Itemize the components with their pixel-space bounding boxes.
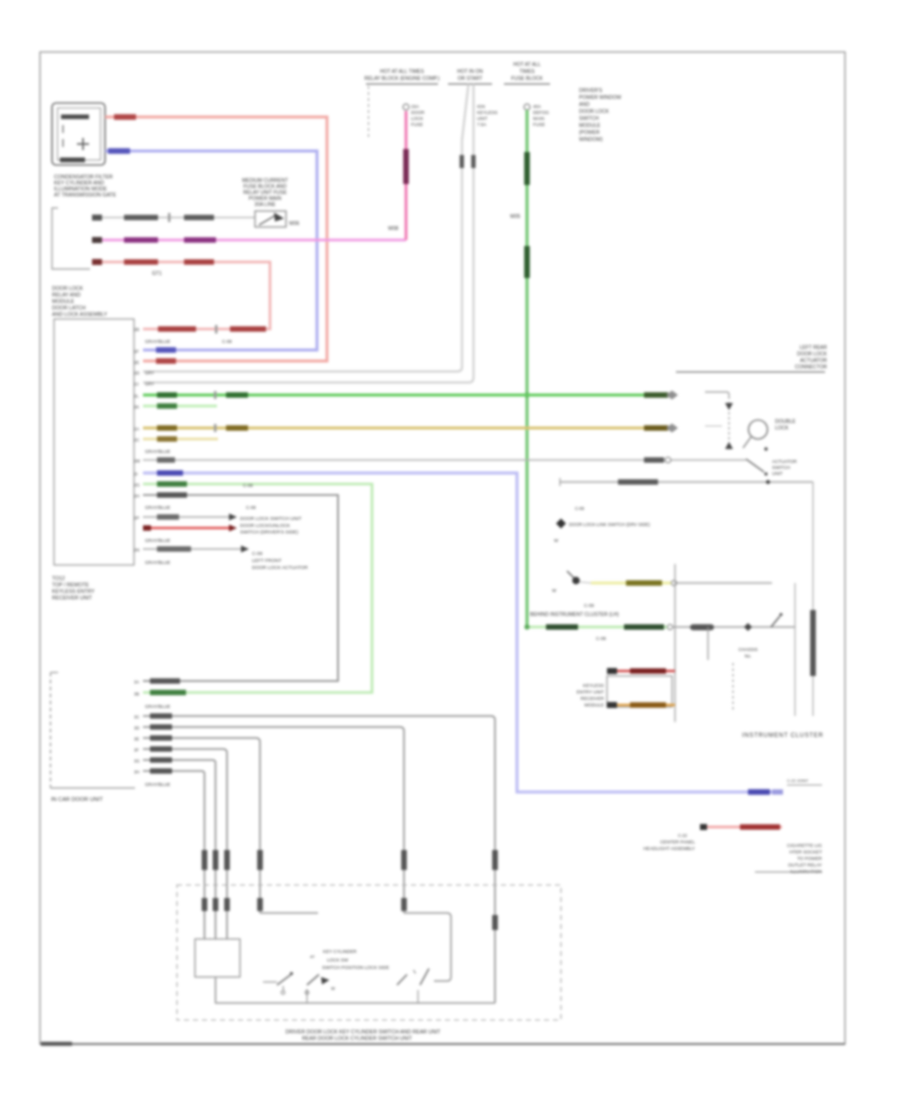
svg-text:2N: 2N bbox=[134, 548, 139, 553]
wire bottom bus bbox=[215, 1002, 495, 1004]
svg-text:C-08: C-08 bbox=[596, 636, 606, 641]
wire down W18 bbox=[134, 713, 498, 1003]
svg-text:DRIVER'S: DRIVER'S bbox=[579, 88, 603, 94]
svg-text:LEFT REAR: LEFT REAR bbox=[800, 345, 828, 351]
wire red short 827 bbox=[643, 824, 782, 851]
wire stub arrow W17 bbox=[134, 546, 308, 572]
svg-text:2H: 2H bbox=[134, 494, 139, 499]
connector box B2 bbox=[195, 939, 240, 977]
wire cluster vertical V1 bbox=[812, 482, 814, 716]
svg-text:40A: 40A bbox=[533, 104, 541, 109]
node row 693 green loop end bbox=[134, 690, 186, 697]
svg-text:GRAY/BLUE: GRAY/BLUE bbox=[145, 505, 170, 510]
svg-text:REAR DOOR LOCK CYLINDER SWITCH: REAR DOOR LOCK CYLINDER SWITCH UNIT bbox=[302, 1036, 413, 1042]
svg-text:2A: 2A bbox=[134, 427, 139, 432]
svg-text:DOOR LOCK SWITCH UNIT: DOOR LOCK SWITCH UNIT bbox=[240, 516, 302, 522]
svg-text:HEADLIGHT ASSEMBLY: HEADLIGHT ASSEMBLY bbox=[643, 846, 695, 851]
svg-text:FUSE BLOCK: FUSE BLOCK bbox=[511, 76, 543, 82]
battery / key cylinder box B1 bbox=[52, 103, 105, 165]
svg-text:CONNECTOR: CONNECTOR bbox=[795, 365, 828, 371]
wire gray row 627 cont bbox=[673, 613, 795, 631]
svg-text:2B: 2B bbox=[134, 327, 139, 332]
svg-text:3H: 3H bbox=[134, 770, 139, 775]
svg-text:DOUBLE: DOUBLE bbox=[775, 419, 796, 425]
wire stub 708 bbox=[707, 627, 709, 660]
header H1 hot at all times bbox=[364, 69, 440, 140]
label vertical instrument cluster bbox=[810, 610, 816, 676]
wire blue long W12 bbox=[134, 470, 783, 795]
node segment 913 bbox=[260, 912, 318, 914]
wire yellow row 583 bbox=[580, 580, 772, 585]
svg-text:FUSE: FUSE bbox=[411, 122, 423, 127]
label switch center bbox=[310, 949, 389, 970]
svg-text:GRY: GRY bbox=[145, 371, 154, 376]
wire green long W7 bbox=[134, 391, 678, 400]
svg-text:INSTRUMENT CLUSTER: INSTRUMENT CLUSTER bbox=[742, 733, 824, 739]
svg-text:TO POWER: TO POWER bbox=[797, 856, 823, 861]
svg-text:C-22 JOINT: C-22 JOINT bbox=[787, 778, 809, 783]
wire green stub W8 bbox=[134, 403, 217, 409]
svg-text:AT: AT bbox=[310, 954, 315, 959]
svg-text:RECEIVER UNIT: RECEIVER UNIT bbox=[52, 596, 93, 602]
svg-text:DOOR LOCK/UNLOCK: DOOR LOCK/UNLOCK bbox=[240, 523, 291, 529]
svg-text:CHASSIS: CHASSIS bbox=[738, 647, 757, 652]
link dashed 733 bbox=[732, 663, 734, 710]
svg-text:GRAY/BLUE: GRAY/BLUE bbox=[145, 782, 170, 787]
svg-text:W06: W06 bbox=[289, 221, 300, 227]
wire white W5 bbox=[143, 84, 476, 383]
switch blade actuator bbox=[746, 459, 798, 476]
wire down W21 bbox=[134, 746, 230, 939]
svg-text:7.5A: 7.5A bbox=[477, 122, 486, 127]
svg-text:KEYLESS: KEYLESS bbox=[583, 683, 604, 688]
svg-text:2F: 2F bbox=[134, 349, 139, 354]
svg-text:15A: 15A bbox=[411, 104, 419, 109]
node row A filter wire bbox=[92, 213, 255, 222]
svg-text:LEFT FRONT: LEFT FRONT bbox=[252, 558, 282, 564]
switch SW3 blade bbox=[397, 970, 416, 985]
connector bracket C2 bbox=[51, 673, 136, 804]
filter component F1 bbox=[255, 211, 300, 227]
svg-text:DOOR LOCK ACTUATOR: DOOR LOCK ACTUATOR bbox=[252, 565, 308, 571]
svg-text:GRAY/BLUE: GRAY/BLUE bbox=[145, 560, 170, 565]
svg-text:SWITCH POSITION LOCK SIDE: SWITCH POSITION LOCK SIDE bbox=[322, 965, 389, 970]
label chassis no bbox=[738, 647, 757, 659]
svg-text:DOOR LOCK-LINK SWITCH (DRV SID: DOOR LOCK-LINK SWITCH (DRV SIDE) bbox=[569, 522, 650, 527]
wire red loop W1 bbox=[105, 114, 327, 364]
svg-text:KEYLESS: KEYLESS bbox=[477, 110, 498, 115]
wire orange row 705 bbox=[607, 702, 675, 708]
svg-text:3F: 3F bbox=[134, 748, 139, 753]
svg-text:2J: 2J bbox=[134, 382, 138, 387]
wire vertical 675 bbox=[674, 564, 676, 722]
label above filter bbox=[242, 178, 288, 208]
svg-text:AND: AND bbox=[579, 102, 590, 108]
svg-text:WINDOW): WINDOW) bbox=[579, 137, 603, 143]
svg-text:2E: 2E bbox=[134, 360, 139, 365]
switch housing outline bbox=[404, 913, 451, 981]
wire light green loop W13 bbox=[134, 481, 372, 692]
svg-text:DOOR LATCH: DOOR LATCH bbox=[52, 306, 86, 312]
wire down W22 bbox=[134, 757, 218, 939]
svg-text:2L: 2L bbox=[134, 394, 139, 399]
svg-text:TOP / REMOTE: TOP / REMOTE bbox=[52, 583, 90, 589]
svg-text:2M: 2M bbox=[134, 459, 140, 464]
node diamond 523 bbox=[554, 506, 650, 543]
label footer bbox=[286, 1030, 442, 1043]
wire down W23 bbox=[134, 768, 207, 939]
motor M1 bbox=[743, 419, 796, 451]
svg-text:AT TRANSMISSION GATE: AT TRANSMISSION GATE bbox=[54, 193, 117, 199]
svg-text:RELAY AND: RELAY AND bbox=[52, 293, 81, 299]
wire down W20 bbox=[134, 735, 263, 913]
svg-text:30A LINE: 30A LINE bbox=[254, 202, 276, 208]
label note above blue end bbox=[787, 778, 822, 785]
svg-text:MODULE: MODULE bbox=[52, 299, 75, 305]
svg-text:CIGARETTE LIG: CIGARETTE LIG bbox=[787, 843, 822, 848]
svg-text:2K: 2K bbox=[134, 405, 139, 410]
label left rear actuator bbox=[795, 345, 828, 371]
svg-text:AND LOCK ASSEMBLY: AND LOCK ASSEMBLY bbox=[52, 312, 108, 318]
svg-text:W: W bbox=[554, 538, 559, 543]
label C-09 cluster bbox=[530, 603, 619, 641]
svg-text:MODULE: MODULE bbox=[579, 123, 601, 129]
svg-text:HOT IN ON: HOT IN ON bbox=[457, 69, 483, 75]
svg-text:W08: W08 bbox=[388, 226, 399, 232]
wire gray row 482 bbox=[560, 478, 813, 486]
wire white W4 bbox=[143, 84, 469, 372]
svg-text:GT1: GT1 bbox=[152, 271, 162, 277]
label under box U1 bbox=[52, 576, 95, 602]
wire stub arrow W15 bbox=[134, 514, 302, 523]
svg-text:C-08: C-08 bbox=[243, 483, 253, 488]
header H2 bbox=[448, 69, 498, 127]
svg-text:IGN: IGN bbox=[477, 104, 485, 109]
switch SW2 blade bbox=[305, 975, 335, 1004]
svg-text:C-08: C-08 bbox=[222, 339, 232, 344]
svg-text:DRIVER DOOR LOCK KEY CYLINDER: DRIVER DOOR LOCK KEY CYLINDER SWITCH AND… bbox=[286, 1030, 442, 1036]
wire down W19 bbox=[134, 724, 407, 913]
svg-text:UNIT: UNIT bbox=[477, 116, 488, 121]
wire green vertical W6 bbox=[510, 104, 530, 627]
node row text 450 bbox=[145, 449, 170, 454]
label keyless unit bbox=[577, 683, 605, 708]
wire red row 671 bbox=[607, 668, 675, 674]
wire actuator top rail bbox=[676, 371, 825, 373]
svg-text:ENTRY UNIT: ENTRY UNIT bbox=[577, 690, 605, 695]
component box U1 door module bbox=[54, 319, 134, 565]
wire gray loop W14 bbox=[134, 492, 338, 681]
connector bracket C1 bbox=[52, 208, 90, 269]
svg-text:HOT AT ALL TIMES: HOT AT ALL TIMES bbox=[380, 69, 425, 75]
svg-text:GRAY/BLUE: GRAY/BLUE bbox=[145, 538, 170, 543]
wire cluster vertical V2 bbox=[794, 583, 796, 716]
svg-text:RELAY BLOCK (ENGINE COMP.): RELAY BLOCK (ENGINE COMP.) bbox=[364, 76, 440, 82]
svg-text:W: W bbox=[552, 588, 557, 593]
svg-text:GRAY/BLUE: GRAY/BLUE bbox=[145, 704, 170, 709]
svg-text:BEHIND INSTRUMENT CLUSTER (LH): BEHIND INSTRUMENT CLUSTER (LH) bbox=[530, 612, 619, 618]
svg-text:DOOR LOCK: DOOR LOCK bbox=[797, 352, 828, 358]
svg-text:OUTLET RELAY: OUTLET RELAY bbox=[788, 863, 822, 868]
svg-text:DEFOG: DEFOG bbox=[533, 110, 550, 115]
svg-text:C-08: C-08 bbox=[252, 551, 263, 557]
svg-text:LOCK: LOCK bbox=[411, 116, 423, 121]
svg-text:ACTUATOR: ACTUATOR bbox=[772, 459, 798, 464]
svg-text:2D: 2D bbox=[134, 371, 139, 376]
svg-text:3G: 3G bbox=[134, 759, 140, 764]
svg-text:3D: 3D bbox=[134, 726, 139, 731]
svg-text:GRY: GRY bbox=[145, 382, 154, 387]
label right block cigarette bbox=[755, 843, 823, 874]
dashed box switch assembly bbox=[177, 885, 561, 1020]
node row text 705 bbox=[145, 704, 170, 709]
svg-text:MAIN: MAIN bbox=[533, 116, 544, 121]
node row text 539 bbox=[145, 538, 170, 543]
switch SW4 blade bbox=[418, 969, 429, 1004]
wire stub below B2 bbox=[215, 977, 217, 1003]
svg-text:HOT AT ALL: HOT AT ALL bbox=[513, 62, 541, 68]
keyless unit box B3 bbox=[607, 676, 672, 707]
svg-text:2I: 2I bbox=[134, 472, 138, 477]
svg-text:CENTER PANEL: CENTER PANEL bbox=[660, 840, 695, 845]
label reference block right bbox=[579, 88, 621, 143]
wire blue loop W2 bbox=[105, 148, 317, 353]
svg-text:LOCK SW: LOCK SW bbox=[327, 958, 349, 963]
svg-text:3C: 3C bbox=[134, 715, 139, 720]
svg-text:No.: No. bbox=[745, 654, 752, 659]
label for box B1 bbox=[54, 175, 117, 199]
wire yellow stub W10 bbox=[134, 436, 218, 442]
svg-text:W05: W05 bbox=[510, 214, 521, 220]
wire red stub arrow W16 bbox=[143, 523, 299, 536]
svg-text:3A: 3A bbox=[134, 680, 139, 685]
wire yellow long W9 bbox=[134, 424, 678, 433]
svg-text:2G: 2G bbox=[134, 483, 140, 488]
switch SW1 blade bbox=[263, 972, 293, 994]
pin white rows bbox=[134, 371, 154, 387]
svg-text:W: W bbox=[331, 986, 335, 991]
node row text 506 bbox=[145, 505, 256, 510]
svg-text:MODULE: MODULE bbox=[584, 703, 604, 708]
svg-text:DOOR: DOOR bbox=[411, 110, 425, 115]
svg-text:GRAY/BLUE: GRAY/BLUE bbox=[145, 339, 170, 344]
svg-text:(POWER: (POWER bbox=[579, 130, 600, 136]
svg-text:RECEIVER: RECEIVER bbox=[581, 696, 605, 701]
svg-text:DOOR LOCK: DOOR LOCK bbox=[579, 109, 610, 115]
svg-text:C-09: C-09 bbox=[584, 603, 594, 608]
svg-text:3B: 3B bbox=[134, 692, 139, 697]
svg-text:TIMES: TIMES bbox=[519, 69, 535, 75]
svg-text:ACTUATOR: ACTUATOR bbox=[800, 358, 827, 364]
svg-text:FUSE: FUSE bbox=[533, 122, 545, 127]
svg-text:SWITCH (DRIVER'S SIDE): SWITCH (DRIVER'S SIDE) bbox=[240, 530, 299, 536]
svg-text:GRAY/BLUE: GRAY/BLUE bbox=[145, 449, 170, 454]
svg-text:3E: 3E bbox=[134, 737, 139, 742]
actuator link dashes bbox=[705, 392, 733, 450]
svg-text:2C: 2C bbox=[134, 438, 139, 443]
svg-text:IN CAR DOOR UNIT: IN CAR DOOR UNIT bbox=[51, 797, 103, 803]
svg-text:OR START: OR START bbox=[458, 76, 483, 82]
svg-text:TO12: TO12 bbox=[52, 576, 65, 582]
svg-text:UNIT: UNIT bbox=[772, 471, 783, 476]
label door lock relay block bbox=[52, 286, 108, 318]
node row 681 gray loop end bbox=[134, 678, 180, 684]
header H3 bbox=[504, 62, 550, 127]
node row text 783 bbox=[145, 782, 170, 787]
svg-text:C-08: C-08 bbox=[575, 506, 585, 511]
node row B pink wire bbox=[92, 237, 406, 243]
wire pink vertical W3 bbox=[388, 104, 409, 240]
svg-text:HTER SOCKET: HTER SOCKET bbox=[789, 850, 822, 855]
svg-text:C-08: C-08 bbox=[246, 505, 256, 510]
node row C red return wire bbox=[92, 259, 270, 334]
svg-text:KEYLESS ENTRY: KEYLESS ENTRY bbox=[52, 589, 95, 595]
svg-text:LOCK: LOCK bbox=[775, 426, 789, 432]
wire gray long W11 bbox=[134, 457, 746, 463]
node row text 561 bbox=[145, 560, 170, 565]
svg-text:2P: 2P bbox=[134, 516, 139, 521]
svg-text:KEY CYLINDER: KEY CYLINDER bbox=[323, 949, 357, 954]
svg-text:SWITCH: SWITCH bbox=[579, 116, 599, 122]
lamp switch row 583 bbox=[552, 571, 580, 593]
svg-text:POWER WINDOW: POWER WINDOW bbox=[579, 95, 621, 101]
wire light green row 627 bbox=[524, 624, 672, 629]
svg-text:C-22: C-22 bbox=[678, 833, 688, 838]
svg-text:SWITCH: SWITCH bbox=[772, 465, 790, 470]
node row text 340 bbox=[145, 339, 232, 344]
svg-text:DOOR LOCK: DOOR LOCK bbox=[52, 286, 84, 292]
